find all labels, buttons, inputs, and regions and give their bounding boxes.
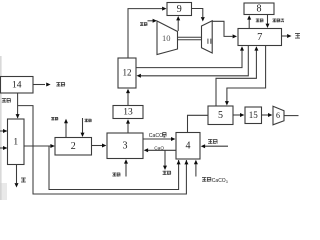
exhaust fan 6 xyxy=(273,106,284,125)
wire oxygen 14 to gasifier 1 xyxy=(17,93,19,118)
arrowhead discharge down xyxy=(163,166,167,170)
wire 6 outlet to right edge xyxy=(284,115,299,117)
arrowhead condensate into 7 top xyxy=(266,24,270,28)
arrowhead fresh CaCO3 into 4 xyxy=(194,160,198,164)
wire steam into 4 right xyxy=(205,145,228,147)
label fresh CaCO3 新鲜CaCO3 xyxy=(202,177,228,184)
svg-text:14: 14 xyxy=(12,80,22,90)
wire 9 to turbine 11 xyxy=(192,9,203,18)
label hot water 热水 above 2 xyxy=(85,119,92,122)
wire steam 7 to 8 xyxy=(248,19,250,29)
arrowhead 9-to-11 into 11 top xyxy=(201,17,205,21)
label exhaust 排 at right edge (clipped) xyxy=(295,33,307,39)
arrowhead water into 1 xyxy=(3,146,7,150)
arrowhead 12-to-7 into 7 bottom xyxy=(240,46,244,50)
wire 5 to 15 xyxy=(233,114,240,116)
turbine 11 label xyxy=(207,39,208,44)
svg-text:10: 10 xyxy=(162,33,171,43)
arrowhead coal into 1 xyxy=(3,129,7,133)
label steam 蒸汽 below 3 xyxy=(112,173,120,177)
wire CaCO3 3 to 4 xyxy=(143,138,171,140)
arrowhead slag down xyxy=(15,183,19,187)
purifier 3 xyxy=(107,133,143,159)
shaft between compressor 10 and turbine 11 xyxy=(178,37,202,40)
arrowhead steam into 3 xyxy=(124,159,128,163)
svg-text:12: 12 xyxy=(123,68,132,78)
arrowhead into 9 left xyxy=(162,7,166,11)
gasifier 1 xyxy=(8,119,25,165)
svg-text:2: 2 xyxy=(71,141,76,152)
arrowhead CaO into 3 right xyxy=(144,148,148,152)
arrowhead 5-to-7 into 7 bottom xyxy=(254,46,258,50)
wire air inlet to compressor 10 xyxy=(148,20,154,22)
arrowhead steam into 8 bottom xyxy=(247,15,251,19)
wire oxygen branch 14 to calciner 4 via bottom outer loop xyxy=(18,106,187,194)
arrowhead 7-to-5 into 5 top xyxy=(225,101,229,105)
wire 5 top to 7 bottom xyxy=(216,50,256,106)
svg-text:CaCO3: CaCO3 xyxy=(212,178,228,184)
arrowhead 11-to-7 into 7 left xyxy=(233,34,237,38)
gas turbine 11 xyxy=(202,21,213,53)
wire exhaust out of 7 right xyxy=(282,35,288,37)
arrowhead 10-to-9 into 9 bottom xyxy=(176,16,180,20)
wire condensate 8 to 7 xyxy=(267,15,269,25)
svg-text:15: 15 xyxy=(249,110,259,120)
unit 5 xyxy=(208,106,233,125)
label slag 渣 below 1 xyxy=(21,178,26,183)
wire 12 to combustor 9 xyxy=(128,9,162,58)
wire 2 to 3 xyxy=(92,145,103,147)
arrowhead air into 10 xyxy=(153,19,157,23)
arrowhead into 3 left xyxy=(102,144,106,148)
arrowhead steam into 4 xyxy=(201,144,205,148)
wire hot water into 2 top xyxy=(82,118,84,133)
svg-text:7: 7 xyxy=(257,32,262,43)
wire nitrogen out of 14 xyxy=(33,84,45,86)
arrowhead 7-to-12 into 12 right xyxy=(137,74,141,78)
label condensate 冷凝水 between 8 and 7 xyxy=(273,19,285,23)
combustor 9 xyxy=(167,3,192,16)
wire compressor 10 to 9 xyxy=(177,20,179,32)
wire fresh CaCO3 into 4 bottom xyxy=(195,163,197,177)
arrowhead into 13 bottom xyxy=(126,119,130,123)
wire steam into 3 bottom xyxy=(125,163,127,177)
wire 15 to fan 6 xyxy=(262,114,269,116)
arrowhead into 4 bottom (inner loop) xyxy=(177,160,181,164)
compressor 10 xyxy=(157,21,178,55)
wire 3 to 13 xyxy=(127,124,129,134)
svg-text:1: 1 xyxy=(13,137,18,147)
svg-text:9: 9 xyxy=(177,4,182,15)
label nitrogen 氮气 xyxy=(56,82,65,86)
arrowhead steam up from 2 xyxy=(64,119,68,123)
svg-text:13: 13 xyxy=(123,108,133,118)
calciner 4 xyxy=(176,133,200,160)
wire 12 to 7 bottom xyxy=(135,50,242,68)
arrowhead into 12 bottom xyxy=(126,89,130,93)
svg-text:3: 3 xyxy=(123,141,128,152)
label steam 蒸汽 right of 4 xyxy=(208,139,218,144)
svg-text:8: 8 xyxy=(257,4,262,15)
wire slag out of 1 bottom xyxy=(16,165,18,184)
unit 13 xyxy=(113,106,143,119)
air separation unit 14 xyxy=(1,77,34,94)
label steam 蒸汽 above 2 xyxy=(51,117,58,120)
arrowhead hot water into 2 xyxy=(81,133,85,137)
arrowhead into 6 left xyxy=(268,113,272,117)
wire 7 to 12 right xyxy=(141,46,248,76)
wire CaO 4 to 3 xyxy=(148,149,176,151)
wire coal feed into 1 (upper) xyxy=(0,130,7,132)
arrowhead exhaust xyxy=(287,34,291,38)
wire steam out of 2 top xyxy=(65,123,67,138)
label air 空气 at compressor xyxy=(140,22,147,26)
HRSG 7 xyxy=(238,29,282,46)
label CaCO3etc on 3-to-4 line xyxy=(149,132,167,139)
arrowhead nitrogen xyxy=(46,83,50,87)
wire water feed into 1 (lower) xyxy=(0,147,7,149)
wire gasifier 1 outlet to heat exchanger 2 xyxy=(24,145,54,147)
arrowhead oxygen into 1 top xyxy=(16,114,20,118)
unit 12 xyxy=(118,58,136,88)
svg-text:4: 4 xyxy=(186,141,191,152)
label oxygen 氧气 xyxy=(2,98,11,102)
svg-text:CaO: CaO xyxy=(154,145,164,151)
heat exchanger 2 xyxy=(55,138,92,156)
wire syngas branch to calciner 4 via bottom inner loop xyxy=(49,146,179,190)
wire turbine 11 to 7 xyxy=(212,21,232,36)
arrowhead into 4 bottom (outer loop) xyxy=(184,160,188,164)
svg-text:6: 6 xyxy=(276,111,280,120)
wire 13 to 12 xyxy=(127,93,129,106)
arrowhead CaCO3 into 4 left xyxy=(171,137,175,141)
arrowhead into 15 left xyxy=(240,113,244,117)
wire 4 top to 5 left xyxy=(188,115,208,132)
arrowhead into 2 left xyxy=(50,144,54,148)
unit 15 xyxy=(245,107,262,124)
label discharge 排料 below CaO line xyxy=(163,171,172,175)
wire discharge branch from CaO line xyxy=(164,150,166,166)
label steam 蒸汽 between 7 and 8 xyxy=(256,19,264,23)
steam turbine 8 xyxy=(244,3,274,15)
wire 7 to 5 top xyxy=(227,46,266,102)
svg-text:5: 5 xyxy=(218,110,223,121)
